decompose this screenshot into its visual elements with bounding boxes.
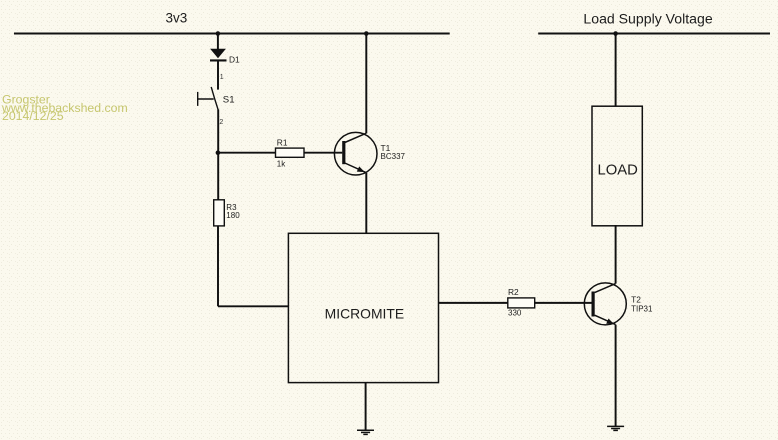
svg-text:S1: S1 — [223, 95, 235, 106]
svg-text:R2: R2 — [508, 287, 519, 297]
svg-text:TIP31: TIP31 — [631, 305, 653, 314]
svg-text:180: 180 — [226, 211, 240, 220]
svg-text:T2: T2 — [631, 294, 641, 304]
svg-text:BC337: BC337 — [381, 152, 406, 161]
svg-text:R1: R1 — [277, 138, 288, 148]
svg-text:LOAD: LOAD — [598, 163, 638, 179]
svg-text:1: 1 — [220, 74, 224, 81]
svg-text:Load Supply Voltage: Load Supply Voltage — [583, 11, 712, 27]
svg-text:2: 2 — [219, 119, 223, 126]
svg-text:D1: D1 — [229, 54, 240, 64]
svg-text:1k: 1k — [277, 159, 286, 168]
svg-text:3v3: 3v3 — [166, 11, 188, 26]
svg-text:2014/12/25: 2014/12/25 — [2, 109, 64, 123]
svg-text:330: 330 — [508, 308, 522, 317]
svg-text:MICROMITE: MICROMITE — [325, 306, 404, 322]
